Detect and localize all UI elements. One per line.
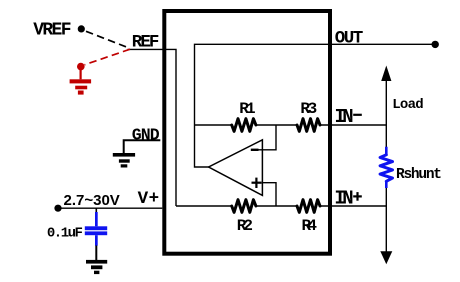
svg-text:Load: Load xyxy=(392,97,424,113)
svg-text:REF: REF xyxy=(132,33,160,53)
svg-text:0.1uF: 0.1uF xyxy=(47,226,83,242)
svg-text:Rshunt: Rshunt xyxy=(396,167,442,183)
svg-text:GND: GND xyxy=(132,126,160,145)
svg-text:VREF: VREF xyxy=(33,21,71,41)
svg-text:IN: IN xyxy=(334,188,353,210)
svg-text:R3: R3 xyxy=(300,100,317,118)
svg-text:R1: R1 xyxy=(239,100,255,118)
svg-text:IN: IN xyxy=(335,106,354,128)
svg-text:OUT: OUT xyxy=(335,29,364,49)
svg-text:R2: R2 xyxy=(237,217,253,235)
svg-text:V+: V+ xyxy=(138,189,160,209)
svg-text:R4: R4 xyxy=(302,217,318,235)
svg-text:2.7~30V: 2.7~30V xyxy=(64,192,120,209)
